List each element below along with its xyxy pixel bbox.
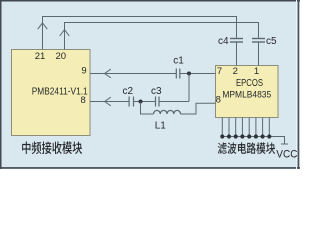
U2 bottom pin wires [222, 118, 269, 137]
svg-text:c3: c3 [151, 86, 162, 97]
svg-text:7: 7 [217, 66, 222, 77]
wire node A down to c3 net [188, 74, 190, 102]
capacitor c3 [156, 97, 160, 107]
arrowhead left on pin9 wire [105, 69, 111, 78]
wire pin8 through c2 and c3 [90, 101, 189, 103]
IC U1 PMB2411-V1.1 box [12, 50, 91, 136]
svg-text:8: 8 [216, 95, 221, 106]
svg-text:c5: c5 [266, 36, 277, 47]
arrowhead left on pin8 wire [105, 97, 111, 106]
svg-text:c1: c1 [173, 56, 184, 67]
ground bus wire to VCC [221, 137, 285, 145]
svg-text:2: 2 [233, 66, 238, 77]
svg-text:20: 20 [56, 51, 67, 62]
label IF receiver module (Chinese) [22, 141, 82, 154]
outer frame [0, 0, 300, 169]
svg-text:c4: c4 [218, 36, 229, 47]
svg-text:c2: c2 [123, 86, 134, 97]
wire pin9 to c1 to pin7 [90, 73, 216, 75]
label filter circuit module (Chinese) [218, 142, 275, 154]
capacitor c1 [176, 69, 180, 79]
inductor L1 branch wire [141, 102, 216, 115]
junction node B [139, 100, 143, 104]
VCC terminal bar [281, 143, 288, 145]
svg-text:L1: L1 [155, 121, 167, 132]
svg-text:VCC: VCC [276, 149, 297, 161]
svg-text:EPCOS: EPCOS [236, 78, 263, 89]
svg-text:9: 9 [81, 65, 86, 76]
svg-text:1: 1 [254, 66, 259, 77]
arrowhead up on pin20 wire [60, 30, 70, 36]
junction dots on bus [220, 134, 271, 138]
svg-text:MPMLB4835: MPMLB4835 [222, 89, 271, 100]
svg-text:21: 21 [35, 51, 46, 62]
wire pin20 to capacitor c5 [65, 23, 259, 50]
junction node A [187, 72, 191, 76]
arrowhead up on pin21 wire [38, 23, 48, 29]
IC U2 EPCOS MPMLB4835 box [216, 66, 279, 118]
capacitor c4 [230, 39, 243, 66]
svg-text:PMB2411-V1.1: PMB2411-V1.1 [32, 86, 88, 98]
capacitor c5 [252, 39, 265, 66]
capacitor c2 [129, 97, 133, 107]
wire pin21 to capacitor c4 [43, 17, 237, 50]
